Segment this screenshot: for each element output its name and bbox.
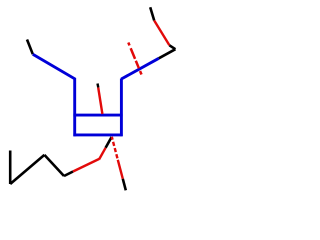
bond blue diagonal to V1 bbox=[33, 54, 75, 136]
top-right chain black upper (CH3) bbox=[150, 7, 154, 20]
top-right chain red (O bond) bbox=[154, 21, 169, 46]
bond B solid red half bbox=[118, 160, 123, 179]
bond A2 red half bbox=[73, 159, 99, 172]
bond A1 red half (O side) bbox=[99, 148, 106, 160]
dashed red stereo bond top bbox=[128, 43, 141, 75]
top-right connector black bbox=[169, 45, 175, 49]
bond B black half (CH3) bbox=[123, 179, 126, 191]
bond A1 black half (ring side) bbox=[106, 137, 112, 148]
central red O bond bbox=[98, 88, 102, 115]
bond CH3 top-left (black) bbox=[27, 40, 33, 55]
diagonal D blue half bbox=[121, 58, 159, 79]
zigzag black vertical bottom-left bbox=[9, 151, 12, 185]
zigzag black diagonal down bbox=[44, 155, 64, 176]
bond A2 black half (CH3-O) bbox=[64, 172, 73, 177]
right vertical (blue) bbox=[120, 79, 123, 137]
dashed red bond B (W to O) bbox=[112, 137, 118, 160]
cyclobutane top edge (blue) bbox=[73, 114, 122, 117]
zigzag black diagonal up bbox=[10, 155, 44, 184]
diagonal D black half bbox=[159, 49, 176, 58]
cyclobutane bottom edge (blue) bbox=[73, 133, 122, 136]
central black tip bbox=[96, 84, 99, 88]
